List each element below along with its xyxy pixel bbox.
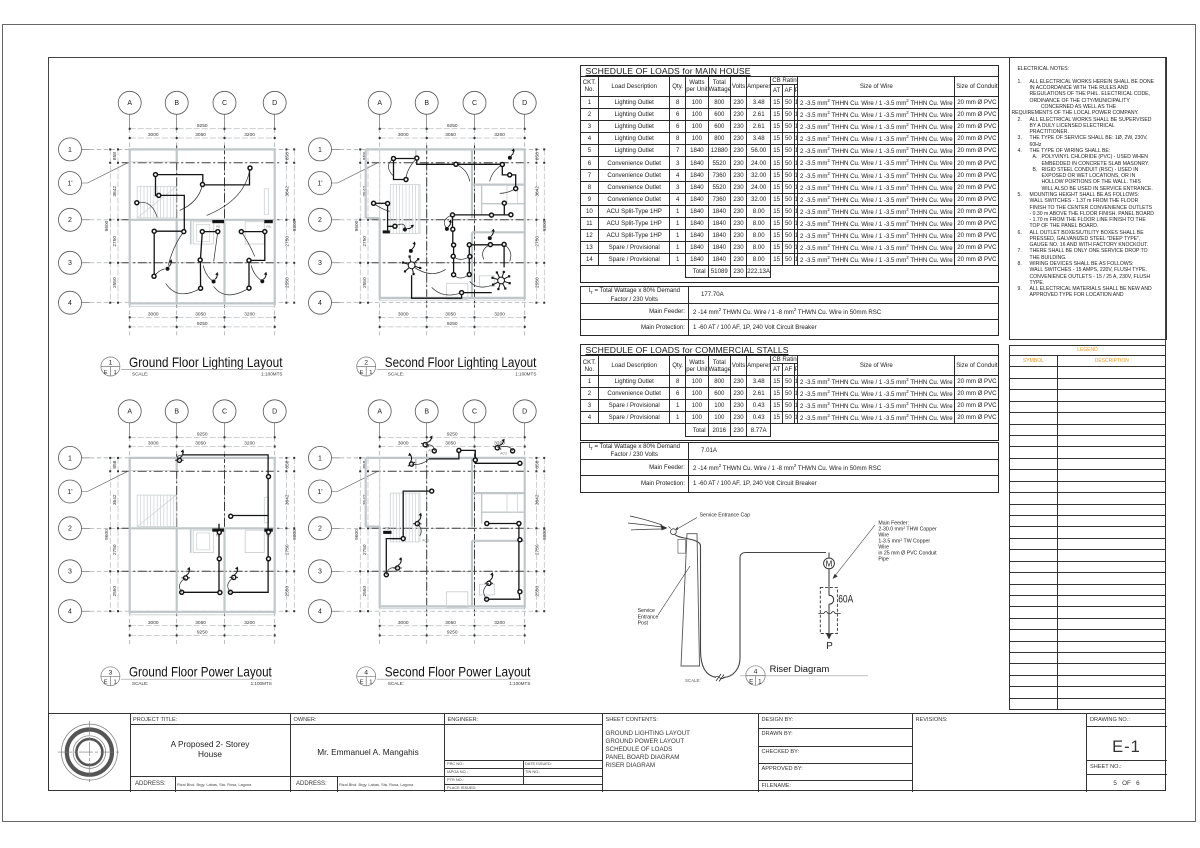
svg-text:2550: 2550 <box>534 586 540 597</box>
svg-text:M: M <box>826 559 833 568</box>
svg-text:4: 4 <box>364 670 368 677</box>
gfp panel board PB1 <box>212 529 224 532</box>
switch leg wire <box>207 168 250 215</box>
svg-text:ACU: ACU <box>500 451 507 455</box>
second floor lighting plan grid skeleton <box>309 91 549 335</box>
panel board feed <box>383 230 390 233</box>
junction <box>228 590 232 594</box>
svg-text:C: C <box>472 409 477 416</box>
switch leg wire <box>386 568 397 575</box>
svg-text:1': 1' <box>317 180 322 187</box>
svg-text:1:100MTS: 1:100MTS <box>261 371 282 376</box>
wire <box>153 231 155 276</box>
wire <box>403 491 432 538</box>
svg-text:3200: 3200 <box>494 620 505 626</box>
switch leg wire <box>432 287 462 295</box>
lighting outlet <box>200 230 204 234</box>
junction <box>217 530 221 534</box>
svg-text:1: 1 <box>68 455 72 462</box>
convenience outlet <box>493 436 506 451</box>
svg-text:2750: 2750 <box>534 236 540 247</box>
svg-text:9250: 9250 <box>447 629 458 635</box>
svg-text:3000: 3000 <box>398 311 409 317</box>
gfp panel board PB2 <box>264 529 273 532</box>
svg-text:3642: 3642 <box>534 186 540 197</box>
lighting outlet <box>199 286 203 290</box>
legend table <box>1009 345 1167 711</box>
svg-text:3: 3 <box>109 670 113 677</box>
second floor power plan grid skeleton <box>309 400 549 644</box>
switch leg wire <box>406 158 417 177</box>
svg-text:3200: 3200 <box>494 132 505 138</box>
svg-text:3200: 3200 <box>244 620 255 626</box>
wire <box>502 165 509 175</box>
svg-text:1: 1 <box>68 147 72 154</box>
switch leg wire <box>180 185 203 211</box>
lighting outlet <box>182 230 186 234</box>
gfl walls <box>129 149 276 306</box>
switch leg wire <box>456 164 470 181</box>
svg-text:858: 858 <box>112 152 118 160</box>
wire <box>469 244 504 246</box>
svg-text:1: 1 <box>318 455 322 462</box>
svg-text:E: E <box>360 680 364 686</box>
sfl walls <box>366 149 526 300</box>
second floor power plan <box>309 400 549 644</box>
svg-text:3200: 3200 <box>244 311 255 317</box>
svg-text:PB: PB <box>216 225 221 229</box>
wire break symbol <box>715 674 725 682</box>
schedule summary box <box>580 442 1000 493</box>
svg-text:2750: 2750 <box>112 544 118 555</box>
switch leg wire <box>241 232 254 257</box>
switch leg wire <box>444 215 452 229</box>
svg-text:Service Entrance Cap: Service Entrance Cap <box>700 513 751 519</box>
svg-text:858: 858 <box>284 460 290 468</box>
switch leg wire <box>166 283 201 293</box>
svg-text:SCALE:: SCALE: <box>685 678 701 683</box>
svg-text:3050: 3050 <box>195 311 206 317</box>
company logo <box>49 714 129 792</box>
svg-text:4: 4 <box>68 300 72 307</box>
wire <box>452 215 454 229</box>
wall switch <box>445 219 452 231</box>
svg-text:A: A <box>127 409 132 416</box>
convenience outlet <box>182 567 191 580</box>
svg-text:9600: 9600 <box>354 529 360 540</box>
lighting outlet <box>502 201 506 205</box>
lighting outlet <box>154 173 158 177</box>
lighting outlet <box>502 242 506 246</box>
wire <box>452 229 454 245</box>
main service wire <box>675 535 716 678</box>
switch leg wire <box>388 159 393 176</box>
ground floor power plan grid skeleton <box>59 400 299 644</box>
wire <box>518 524 520 592</box>
junction <box>217 557 221 561</box>
junction <box>518 538 522 542</box>
switch leg wire <box>454 275 470 279</box>
svg-text:C: C <box>472 100 477 107</box>
wire <box>392 538 404 540</box>
svg-text:3000: 3000 <box>398 132 409 138</box>
junction <box>432 449 436 453</box>
wire <box>412 275 462 298</box>
convenience outlet <box>393 557 402 570</box>
svg-text:3642: 3642 <box>112 186 118 197</box>
svg-text:D: D <box>272 100 277 107</box>
svg-text:E: E <box>360 370 364 376</box>
plan title 3 <box>101 665 272 687</box>
svg-text:858: 858 <box>284 152 290 160</box>
lighting outlet <box>239 230 243 234</box>
junction <box>473 458 477 462</box>
schedule summary box <box>580 286 1000 336</box>
wire <box>487 523 519 525</box>
wire <box>417 158 456 164</box>
switch leg wire <box>412 265 446 273</box>
svg-text:4: 4 <box>318 300 322 307</box>
wire <box>456 163 502 165</box>
junction <box>518 461 522 465</box>
lighting outlet <box>467 273 471 277</box>
svg-text:Second Floor Lighting Layout: Second Floor Lighting Layout <box>385 355 537 370</box>
lighting outlet <box>467 243 471 247</box>
switch leg wire <box>497 446 512 450</box>
lighting outlet <box>404 178 408 182</box>
riser diagram <box>628 513 937 686</box>
switch leg wire <box>483 245 491 260</box>
wire <box>394 159 407 180</box>
ground floor power plan <box>59 400 299 644</box>
junction <box>267 557 271 561</box>
junction <box>384 573 388 577</box>
svg-text:3642: 3642 <box>534 494 540 505</box>
svg-text:9250: 9250 <box>197 431 208 437</box>
svg-text:B: B <box>174 409 179 416</box>
lighting outlet <box>201 183 205 187</box>
switch leg wire <box>395 224 405 227</box>
svg-text:2550: 2550 <box>284 277 290 288</box>
svg-text:3050: 3050 <box>445 311 456 317</box>
SCHEDULE OF LOADS for COMMERCIAL STALLS table <box>580 344 1000 441</box>
wire <box>159 195 184 230</box>
junction <box>518 590 522 594</box>
wire <box>510 175 516 189</box>
switch leg wire <box>203 265 213 281</box>
svg-text:2: 2 <box>364 360 368 367</box>
convenience outlet <box>230 566 239 579</box>
svg-text:3050: 3050 <box>445 132 456 138</box>
svg-text:9600: 9600 <box>104 220 110 231</box>
svg-text:2550: 2550 <box>112 277 118 288</box>
svg-text:3642: 3642 <box>284 186 290 197</box>
convenience outlet <box>413 513 422 526</box>
title block <box>48 713 1166 792</box>
switch leg wire <box>168 232 184 266</box>
svg-text:858: 858 <box>534 152 540 160</box>
svg-text:2550: 2550 <box>362 277 368 288</box>
switch leg wire <box>484 583 489 599</box>
svg-text:3000: 3000 <box>148 132 159 138</box>
junction <box>430 489 434 493</box>
lighting outlet <box>157 193 161 197</box>
plan title 1 <box>101 355 283 377</box>
wire <box>487 592 520 600</box>
lighting outlet <box>468 255 472 259</box>
lighting outlet <box>152 229 156 233</box>
svg-text:3200: 3200 <box>244 132 255 138</box>
svg-text:9250: 9250 <box>447 123 458 129</box>
svg-text:Second Floor Power Layout: Second Floor Power Layout <box>385 665 531 680</box>
svg-text:D: D <box>522 100 527 107</box>
lighting outlet <box>198 258 202 262</box>
svg-text:E: E <box>749 678 753 685</box>
wire <box>386 539 403 575</box>
switch leg wire <box>500 189 516 194</box>
svg-text:PB: PB <box>266 225 271 229</box>
svg-text:9250: 9250 <box>197 123 208 129</box>
lighting outlet <box>488 243 492 247</box>
wall switch <box>488 229 495 241</box>
wire <box>429 450 475 460</box>
lighting outlet <box>451 254 455 258</box>
wire <box>374 202 388 204</box>
svg-text:C: C <box>222 100 227 107</box>
wire <box>453 214 511 216</box>
wire <box>387 226 389 230</box>
switch leg wire <box>504 244 511 261</box>
svg-text:60A: 60A <box>838 594 854 606</box>
svg-text:3050: 3050 <box>195 620 206 626</box>
lighting outlet <box>454 162 458 166</box>
svg-text:1: 1 <box>369 370 372 376</box>
convenience outlet <box>421 433 434 448</box>
lighting outlet <box>509 213 513 217</box>
svg-text:2550: 2550 <box>284 586 290 597</box>
lighting outlet <box>514 187 518 191</box>
svg-text:2550: 2550 <box>534 277 540 288</box>
svg-text:4: 4 <box>68 609 72 616</box>
wall switch <box>260 272 267 284</box>
junction <box>511 449 515 453</box>
svg-text:D: D <box>272 409 277 416</box>
wire <box>156 175 203 185</box>
svg-text:1': 1' <box>317 489 322 496</box>
svg-text:3050: 3050 <box>195 441 206 447</box>
wire <box>503 203 505 215</box>
panel board <box>383 531 391 534</box>
wire <box>200 232 202 289</box>
svg-text:SCALE:: SCALE: <box>132 681 148 686</box>
wire <box>154 230 265 232</box>
svg-text:Pipe: Pipe <box>878 557 888 563</box>
svg-text:2: 2 <box>318 526 322 533</box>
svg-text:3: 3 <box>318 260 322 267</box>
ground floor lighting plan grid skeleton <box>59 91 299 335</box>
line break tildes <box>818 612 840 614</box>
lighting outlet <box>135 201 139 205</box>
switch leg wire <box>179 578 185 592</box>
switch leg wire <box>214 286 249 294</box>
wall switch <box>212 272 219 284</box>
lighting outlet <box>248 166 252 170</box>
svg-text:B: B <box>424 409 429 416</box>
switch leg wire <box>214 232 218 262</box>
svg-text:9250: 9250 <box>197 321 208 327</box>
svg-text:3000: 3000 <box>148 311 159 317</box>
switch leg wire <box>412 459 430 465</box>
svg-text:B: B <box>424 100 429 107</box>
svg-text:3050: 3050 <box>445 620 456 626</box>
svg-text:SCALE:: SCALE: <box>388 681 404 686</box>
svg-text:9250: 9250 <box>447 321 458 327</box>
wall switch <box>166 259 173 271</box>
svg-text:ACU: ACU <box>422 538 429 542</box>
ceiling fan <box>403 257 420 275</box>
svg-text:3200: 3200 <box>494 311 505 317</box>
svg-text:2: 2 <box>68 217 72 224</box>
junction <box>517 522 521 526</box>
lighting outlet <box>500 163 504 167</box>
svg-text:4: 4 <box>318 609 322 616</box>
svg-text:1': 1' <box>67 180 72 187</box>
electrical notes box <box>1009 57 1167 340</box>
svg-text:9800: 9800 <box>292 529 298 540</box>
lighting outlet <box>392 157 396 161</box>
wire <box>475 460 520 463</box>
convenience outlet <box>485 572 494 585</box>
lighting outlet <box>451 213 455 217</box>
wall switch <box>402 221 415 234</box>
lighting outlet <box>452 243 456 247</box>
lighting outlet <box>372 201 376 205</box>
sfp walls <box>366 458 526 609</box>
svg-text:2750: 2750 <box>362 544 368 555</box>
wire <box>183 455 268 516</box>
svg-text:2: 2 <box>68 526 72 533</box>
svg-text:Ground Floor Lighting Layout: Ground Floor Lighting Layout <box>129 355 283 370</box>
junction <box>457 448 461 452</box>
svg-text:1: 1 <box>109 360 113 367</box>
meter M <box>824 558 835 569</box>
svg-text:1:100MTS: 1:100MTS <box>251 681 272 686</box>
plan title 2 <box>357 355 537 377</box>
switch leg wire <box>228 577 234 592</box>
gfl panel board PB1 <box>212 220 224 223</box>
junction <box>485 522 489 526</box>
svg-text:2750: 2750 <box>284 544 290 555</box>
switch leg wire <box>453 256 470 259</box>
svg-text:A: A <box>127 100 132 107</box>
wire <box>203 168 250 185</box>
svg-text:3050: 3050 <box>445 441 456 447</box>
svg-text:Ground Floor Power Layout: Ground Floor Power Layout <box>129 665 272 680</box>
svg-text:SCALE:: SCALE: <box>132 371 148 376</box>
wire <box>454 245 470 275</box>
lighting outlet <box>415 156 419 160</box>
svg-text:3: 3 <box>68 569 72 576</box>
svg-text:3200: 3200 <box>244 441 255 447</box>
lighting outlet <box>451 227 455 231</box>
wire <box>249 232 265 288</box>
SCHEDULE OF LOADS for MAIN HOUSE table <box>580 65 1000 283</box>
switch leg wire <box>154 269 165 276</box>
svg-text:3642: 3642 <box>284 494 290 505</box>
wire <box>182 524 219 593</box>
svg-text:9250: 9250 <box>447 431 458 437</box>
switch leg wire <box>374 203 390 211</box>
svg-text:9800: 9800 <box>542 529 548 540</box>
svg-text:3000: 3000 <box>148 441 159 447</box>
svg-text:Riser Diagram: Riser Diagram <box>770 664 830 675</box>
svg-text:9250: 9250 <box>197 629 208 635</box>
lighting outlet <box>452 273 456 277</box>
wire <box>388 204 395 227</box>
svg-text:1: 1 <box>369 680 372 686</box>
breaker 60A <box>828 587 830 595</box>
wire <box>230 516 268 593</box>
ceiling fan <box>493 272 510 289</box>
switch leg wire <box>177 455 183 460</box>
wire <box>503 244 505 267</box>
junction <box>485 597 489 601</box>
svg-text:1: 1 <box>318 147 322 154</box>
switch leg wire <box>137 202 157 217</box>
svg-text:E: E <box>104 680 108 686</box>
svg-text:9800: 9800 <box>292 220 298 231</box>
svg-text:3000: 3000 <box>398 620 409 626</box>
lighting outlet <box>263 230 267 234</box>
junction <box>267 530 271 534</box>
svg-text:1:100MTS: 1:100MTS <box>509 681 530 686</box>
svg-text:3: 3 <box>318 569 322 576</box>
convenience outlet <box>402 452 416 468</box>
service entrance post <box>681 534 700 666</box>
svg-text:Entrance: Entrance <box>638 614 659 620</box>
svg-text:3000: 3000 <box>148 620 159 626</box>
svg-text:3050: 3050 <box>195 132 206 138</box>
svg-text:1:100MTS: 1:100MTS <box>515 371 536 376</box>
svg-text:858: 858 <box>534 460 540 468</box>
wire <box>462 292 492 294</box>
lighting outlet <box>460 291 464 295</box>
switch leg wire <box>470 281 501 288</box>
junction <box>180 590 184 594</box>
svg-text:2750: 2750 <box>534 544 540 555</box>
svg-text:858: 858 <box>112 460 118 468</box>
lighting outlet <box>216 230 220 234</box>
wire <box>231 515 268 517</box>
svg-text:D: D <box>522 409 527 416</box>
leader main feeder <box>834 525 875 577</box>
service entrance cap <box>671 529 677 535</box>
svg-text:Service: Service <box>638 608 655 614</box>
svg-text:2750: 2750 <box>284 236 290 247</box>
wire <box>394 158 417 160</box>
plan title 4 <box>357 665 531 687</box>
panel dashed box <box>820 587 837 633</box>
svg-text:2: 2 <box>318 217 322 224</box>
wall switch <box>409 241 416 253</box>
lighting outlet <box>247 258 251 262</box>
svg-text:B: B <box>174 100 179 107</box>
wire <box>156 175 159 196</box>
svg-text:9800: 9800 <box>542 220 548 231</box>
svg-text:A: A <box>377 100 382 107</box>
lighting outlet <box>508 173 512 177</box>
svg-text:PB: PB <box>385 526 389 530</box>
